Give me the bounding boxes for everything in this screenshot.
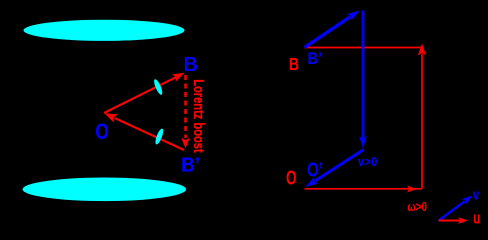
svg-text:v>0: v>0: [358, 154, 378, 169]
svg-text:O’: O’: [307, 159, 323, 181]
svg-text:B’: B’: [181, 154, 200, 176]
svg-text:B: B: [184, 54, 199, 76]
svg-text:ω>0: ω>0: [407, 199, 427, 214]
svg-text:u: u: [473, 210, 480, 228]
svg-text:O: O: [286, 167, 297, 189]
svg-text:v: v: [473, 187, 480, 204]
svg-text:B: B: [289, 54, 299, 74]
svg-text:O: O: [95, 119, 109, 144]
svg-text:Lorentz boost: Lorentz boost: [190, 79, 206, 153]
svg-text:B’: B’: [308, 49, 323, 68]
